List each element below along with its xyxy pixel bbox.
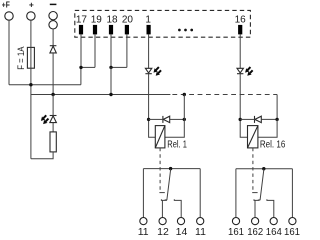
svg-text:161: 161 bbox=[284, 226, 300, 237]
terminal - lower bbox=[49, 21, 57, 29]
contact common bar relay 1 bbox=[143, 168, 200, 170]
wire down to coil relay 16 bbox=[258, 119, 277, 137]
svg-text:+F: +F bbox=[2, 0, 10, 9]
contact 12 relay 1 bbox=[157, 199, 169, 238]
wire - terminal to diode bbox=[52, 29, 54, 46]
wire minus rail h2 dashed continuation bbox=[172, 94, 277, 96]
terminal 11 right relay 1 bbox=[195, 169, 206, 238]
LED relay 1 indicator bbox=[145, 68, 151, 73]
junction flyback left relay 1 bbox=[147, 118, 150, 121]
wire riser 18-20 to h2 bbox=[110, 67, 112, 94]
wire minus rail h2 solid bbox=[31, 94, 171, 96]
terminal + bbox=[27, 12, 35, 20]
terminal 161 right relay 16 bbox=[284, 169, 300, 238]
ellipsis dots bbox=[178, 29, 193, 32]
wire + terminal to fuse bbox=[30, 20, 32, 47]
contact 162 relay 16 bbox=[247, 199, 263, 238]
svg-text:14: 14 bbox=[176, 226, 188, 237]
wire h2 end corner down to relay 16 bbox=[276, 95, 278, 120]
contact common bar relay 16 bbox=[236, 168, 293, 170]
svg-text:11: 11 bbox=[195, 226, 206, 237]
junction pin 18 bbox=[109, 66, 112, 69]
wire flyback relay 16 bbox=[240, 118, 254, 120]
LED relay 1 arrows bbox=[152, 65, 163, 77]
contact arm relay 16 bbox=[258, 169, 264, 200]
terminal +F bbox=[5, 12, 13, 20]
LED relay 16 indicator bbox=[237, 68, 243, 73]
wire flyback relay 1 bbox=[149, 118, 163, 120]
pin 19 bbox=[91, 15, 103, 68]
wire resistor to loop bottom bbox=[31, 152, 53, 159]
junction 18-20 on h2 bbox=[109, 93, 112, 96]
flyback diode relay 16 bbox=[255, 116, 262, 123]
pin 16 bbox=[235, 15, 247, 69]
LED relay 16 arrows bbox=[243, 65, 254, 77]
LED power arrows bbox=[39, 114, 50, 126]
wire pin16 LED to coil corner bbox=[240, 74, 247, 138]
svg-text:16: 16 bbox=[235, 15, 247, 26]
svg-text:Rel. 1: Rel. 1 bbox=[167, 139, 187, 150]
wire 18-20 tie bbox=[111, 66, 127, 68]
resistor R1 bbox=[50, 132, 56, 152]
pin 20 bbox=[122, 15, 134, 68]
node - label bbox=[50, 3, 57, 5]
wire riser pins 17-19 to h1 bbox=[80, 67, 82, 84]
svg-text:164: 164 bbox=[266, 226, 282, 237]
diode V1 reverse polarity protection bbox=[50, 46, 57, 53]
connector dashed box bbox=[75, 10, 251, 37]
contact arm relay 1 bbox=[165, 169, 171, 200]
wire positive rail h1 bbox=[9, 84, 81, 86]
terminal 161 left relay 16 bbox=[228, 169, 244, 238]
wire h2 to LED bbox=[52, 95, 54, 116]
svg-text:18: 18 bbox=[106, 15, 118, 26]
terminal 11 left relay 1 bbox=[138, 169, 149, 238]
svg-text:19: 19 bbox=[91, 15, 103, 26]
relay coil Rel. 16 bbox=[248, 126, 258, 148]
pin 17 bbox=[76, 15, 88, 68]
wire 17-19 tie bbox=[81, 66, 95, 68]
pin 18 bbox=[106, 15, 118, 68]
svg-text:12: 12 bbox=[157, 226, 169, 237]
junction flyback right relay 1 bbox=[183, 118, 186, 121]
LED power indicator bbox=[50, 116, 57, 123]
wire diode to minus rail bbox=[52, 53, 54, 95]
svg-text:11: 11 bbox=[138, 226, 149, 237]
wire LED to resistor bbox=[52, 123, 54, 132]
svg-text:20: 20 bbox=[122, 15, 134, 26]
pin 1 bbox=[145, 15, 151, 69]
svg-text:162: 162 bbox=[247, 226, 263, 237]
contact 14 relay 1 bbox=[174, 199, 187, 238]
junction fuse to h1 bbox=[29, 83, 32, 86]
junction contact pivot relay 1 bbox=[169, 167, 172, 170]
junction flyback right relay 16 bbox=[275, 118, 278, 121]
node minus rail junction bbox=[51, 93, 54, 96]
junction contact pivot relay 16 bbox=[262, 167, 265, 170]
wire h2 tap down to coil relay 1 bbox=[165, 95, 184, 138]
svg-text:+: + bbox=[29, 0, 34, 9]
fuse F1 F = 1A bbox=[16, 46, 34, 69]
svg-text:17: 17 bbox=[76, 15, 88, 26]
mechanical link relay 1 bbox=[159, 148, 161, 190]
svg-text:1: 1 bbox=[145, 15, 151, 26]
wire +F down to positive rail bbox=[8, 20, 10, 85]
relay coil Rel. 1 bbox=[155, 126, 165, 148]
contact 164 relay 16 bbox=[266, 199, 282, 238]
flyback diode relay 1 bbox=[163, 116, 170, 123]
svg-text:161: 161 bbox=[228, 226, 244, 237]
junction h2 tap relay 1 bbox=[183, 93, 186, 96]
mechanical link relay 16 bbox=[252, 148, 254, 190]
wire pin1 LED to coil corner bbox=[149, 74, 156, 138]
junction flyback left relay 16 bbox=[239, 118, 242, 121]
junction pin 17 bbox=[79, 66, 82, 69]
svg-text:F = 1A: F = 1A bbox=[16, 46, 26, 69]
terminal - upper bbox=[49, 12, 57, 20]
svg-text:Rel. 16: Rel. 16 bbox=[260, 139, 285, 150]
wire fuse to LED loop bottom bbox=[30, 68, 32, 159]
